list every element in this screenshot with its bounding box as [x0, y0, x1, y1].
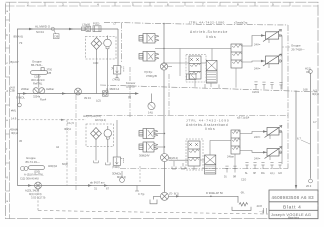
svg-text:H2.5: H2.5 — [305, 67, 311, 71]
svg-text:31: 31 — [94, 187, 97, 191]
enclosure A left dash-dot — [121, 23, 123, 62]
wire valves to trunk — [155, 49, 231, 64]
svg-text:x|9.71|«3|4: x|9.71|«3|4 — [237, 117, 250, 120]
svg-text:L(L): L(L) — [270, 172, 275, 175]
svg-text:9/0.5(2.2): 9/0.5(2.2) — [95, 118, 106, 122]
capsule accumulator bottom — [29, 166, 45, 170]
svg-text:73: 73 — [19, 41, 23, 45]
zone ticks left — [6, 20, 10, 191]
svg-text:links: links — [206, 35, 216, 39]
motor M1 — [263, 30, 282, 42]
arrow motor feed 4 — [263, 151, 267, 153]
svg-text:#M|.: #M|. — [11, 109, 16, 113]
svg-text:D|: D| — [224, 176, 227, 179]
wire spool to relief — [201, 49, 212, 64]
svg-text:S3 04: S3 04 — [36, 30, 44, 34]
small valve box on assembly bottom — [187, 74, 197, 80]
svg-text:3.1(-5: 3.1(-5 — [67, 121, 74, 125]
svg-text:Mannheim: Mannheim — [288, 216, 299, 219]
leader to Gruppe — [282, 46, 290, 48]
wire spool2 to relief2 — [200, 141, 231, 161]
partition dash-dot x130 — [129, 67, 131, 118]
svg-text:b: b — [6, 33, 8, 37]
dashed vline x140 — [139, 166, 141, 183]
port circle mid-bottom — [120, 171, 125, 182]
measuring stem below distribution — [18, 94, 22, 107]
wire dashed drop bottom-left — [37, 189, 39, 210]
svg-text:—(5: —(5 — [259, 210, 265, 214]
svg-text:JTRL 4A-7432-1080: JTRL 4A-7432-1080 — [189, 20, 225, 24]
motor shaft circles — [269, 34, 282, 68]
valve circle bottom-left — [35, 182, 42, 189]
dashed pilot hline left — [17, 119, 86, 121]
relief valve tall bottom — [231, 130, 240, 154]
prop valve dashed box bottom — [186, 139, 203, 170]
svg-text:L(2): L(2) — [96, 99, 101, 103]
solenoid valve V4 — [139, 142, 158, 152]
zone numbers top — [27, 2, 274, 6]
right vertical line 2 — [310, 73, 312, 178]
wires relief to motors — [242, 36, 266, 63]
svg-text:C.7(p: C.7(p — [138, 192, 145, 196]
svg-text:L3(p06: L3(p06 — [82, 23, 91, 27]
wire lower distribution line — [17, 93, 137, 95]
svg-text:67: 67 — [106, 187, 109, 191]
tank circle mid — [148, 94, 155, 110]
svg-text:C7: C7 — [113, 22, 117, 26]
arrow motor feed 2 — [261, 60, 265, 62]
small circle pair left of capsule — [21, 167, 29, 171]
svg-text:AL MWD O: AL MWD O — [35, 24, 51, 28]
coupling block on main line — [82, 26, 91, 31]
motor circle mid — [161, 154, 169, 162]
svg-text:RG: RG — [261, 172, 265, 175]
svg-text:B|4.KY: B|4.KY — [11, 60, 20, 64]
svg-text:30V-10-S/0: 30V-10-S/0 — [31, 78, 45, 82]
svg-text:M(26.2): M(26.2) — [169, 156, 178, 160]
svg-text:links: links — [205, 127, 215, 131]
svg-text:A(23L 34(33: A(23L 34(33 — [25, 189, 40, 193]
wire motor return vertical top — [279, 36, 282, 90]
title block outline — [269, 190, 318, 219]
junction dot return — [210, 196, 212, 198]
svg-text:3.02 C(17.9): 3.02 C(17.9) — [31, 196, 46, 200]
svg-text:-09,: -09, — [240, 191, 245, 195]
svg-text:A-(3)(V) RefTNL: A-(3)(V) RefTNL — [24, 173, 44, 177]
relief valve tall top — [231, 44, 242, 68]
svg-text:a: a — [6, 9, 8, 13]
leader 6.7 — [301, 140, 310, 144]
svg-text:x7|wada7zq: x7|wada7zq — [234, 22, 248, 25]
svg-text:Blatt 4: Blatt 4 — [283, 205, 302, 211]
valve with down arrow bottom — [113, 157, 123, 165]
arrow return line2 — [88, 184, 92, 186]
svg-text:60(4): 60(4) — [62, 162, 68, 166]
arrow distribution line 2 — [62, 92, 66, 94]
motor M4 — [265, 147, 283, 159]
suction wires below pump group — [97, 59, 108, 94]
spool block bottom — [205, 155, 216, 174]
svg-text:C/B: C/B — [47, 72, 52, 75]
svg-text:CZO1: CZO1 — [252, 90, 260, 94]
svg-text:45A(4): 45A(4) — [10, 128, 18, 132]
prop valve stack top — [189, 56, 201, 79]
svg-text:ab 9V07 am: ab 9V07 am — [90, 181, 105, 185]
tank glyph below prop valve bottom — [172, 161, 185, 169]
svg-text:C. 3609 14: C. 3609 14 — [106, 87, 120, 91]
arrow on main line — [29, 28, 34, 30]
svg-text:D 902E-4P 50: D 902E-4P 50 — [206, 191, 223, 195]
svg-text:RefTNL: RefTNL — [33, 82, 43, 86]
svg-text:C3B: C3B — [10, 89, 15, 93]
svg-text:P(32): P(32) — [93, 22, 99, 26]
arrow motor feed 3 — [263, 130, 267, 132]
ports row bottom — [225, 163, 281, 173]
motor shaft circles bottom — [270, 130, 282, 160]
svg-text:[4]: [4] — [128, 95, 131, 99]
wire valves to trunk bottom — [154, 134, 165, 148]
svg-text:(7400): (7400) — [112, 165, 120, 169]
valve with down arrow (7400) — [112, 66, 124, 78]
junction dots bottom trunk — [164, 133, 165, 134]
valve circle pair on distribution — [33, 88, 45, 94]
svg-text:Run4: Run4 — [40, 98, 47, 102]
dashed pump group box top — [86, 36, 117, 59]
svg-text:9R: 9R — [233, 176, 236, 179]
svg-text:GO: GO — [278, 172, 282, 175]
port circle OZ — [309, 70, 313, 74]
enclosure B right dash-dot — [287, 92, 289, 169]
zone letters left — [6, 9, 8, 203]
svg-text:c: c — [6, 61, 8, 65]
pump circle bottom left — [161, 192, 169, 200]
svg-text:7(0.5)x: 7(0.5)x — [144, 70, 153, 74]
svg-text:3a0bar: 3a0bar — [46, 87, 54, 91]
svg-text:39 04: 39 04 — [84, 96, 91, 100]
svg-text:C(2) 30A-KN4U: C(2) 30A-KN4U — [20, 177, 39, 181]
svg-text:86-7421-: 86-7421- — [31, 63, 43, 67]
arrow return line3 — [104, 184, 108, 186]
svg-text:24V=: 24V= — [254, 43, 261, 47]
suction wires bottom group — [96, 147, 108, 163]
enclosure A right dash-dot — [287, 25, 289, 92]
svg-text:I3(1)4: I3(1)4 — [11, 131, 19, 135]
svg-text:(7)- 6(1): (7)- 6(1) — [169, 192, 179, 196]
enclosure B bottom dash-dot — [120, 168, 288, 170]
capsule accumulator top — [31, 68, 48, 75]
svg-text:C180: C180 — [34, 75, 41, 79]
tank under suction 1 — [94, 161, 110, 165]
left trunk vertical lower — [16, 94, 18, 186]
solenoid valve V1 — [139, 34, 159, 44]
port circle right — [309, 179, 313, 183]
junction dots top trunk — [163, 48, 164, 49]
enclosure A top dash-dot — [104, 22, 288, 25]
pump circle P3 — [160, 63, 172, 70]
solenoid valve V3 — [139, 129, 158, 139]
svg-text:(100.5): (100.5) — [126, 84, 135, 88]
wire stub tank to return — [135, 186, 139, 192]
svg-text:C3D: C3D — [93, 61, 98, 65]
arrow distribution line — [135, 92, 139, 94]
pump circle bottom — [104, 126, 112, 147]
svg-text:C2O: C2O — [241, 179, 246, 182]
prop valve stack bottom — [188, 141, 200, 166]
svg-text:89(4.6): 89(4.6) — [14, 35, 24, 39]
prop valve dashed box top — [186, 55, 206, 83]
svg-text:24bar: 24bar — [227, 155, 234, 159]
svg-text:43.8: 43.8 — [257, 204, 263, 208]
svg-text:24V=: 24V= — [254, 135, 261, 139]
junction dot trunk top — [163, 23, 165, 25]
arrow pilot — [61, 119, 65, 121]
svg-text:3700(y/B: 3700(y/B — [146, 74, 157, 78]
svg-text:3P: 3P — [253, 172, 256, 175]
svg-text:14.9: 14.9 — [11, 117, 17, 121]
svg-text:6.7: 6.7 — [297, 137, 301, 141]
svg-text:g: g — [6, 175, 8, 179]
wire capsule drop — [38, 74, 40, 87]
motor M3 — [265, 126, 283, 138]
wire trunk vertical x164 top — [163, 24, 165, 63]
pump circle top — [104, 36, 112, 60]
svg-text:Jeb(4.6)+2(0.2): Jeb(4.6)+2(0.2) — [83, 114, 101, 118]
svg-text:I3(2)4: I3(2)4 — [64, 127, 71, 131]
svg-text:I3(1)4: I3(1)4 — [312, 92, 319, 96]
svg-text:44: 44 — [56, 145, 59, 149]
svg-text:168: 168 — [303, 88, 308, 92]
wire drop to shutoff valve — [117, 29, 119, 66]
arrow return right — [176, 195, 180, 197]
wire assembly drops top — [180, 48, 236, 87]
check valve on distribution line — [103, 91, 109, 96]
enclosure B top dash-dot — [86, 115, 288, 117]
enclosure A bottom dash-dot — [100, 85, 318, 92]
tank symbol bottom mid — [150, 196, 161, 204]
svg-text:JS-7418—: JS-7418— — [291, 47, 305, 51]
wire trunk below motor circle — [164, 162, 166, 193]
svg-text:Antrieb-Schnecke: Antrieb-Schnecke — [190, 30, 228, 34]
valve circle A on distribution — [75, 88, 82, 95]
svg-text:24V=: 24V= — [254, 157, 261, 161]
spool block top — [206, 60, 217, 83]
wire assembly drops bottom — [194, 154, 235, 170]
svg-text:4608983508 A6 83: 4608983508 A6 83 — [272, 195, 315, 200]
svg-text:(7400): (7400) — [113, 78, 121, 82]
filter diamond bottom — [91, 128, 102, 147]
arrow motor feed 1 — [261, 34, 265, 36]
arrow right line 1 — [295, 185, 297, 190]
dashed vline x67 — [66, 120, 68, 186]
arrow on main line 2 — [69, 28, 74, 30]
solenoid valve V2 — [139, 52, 159, 62]
svg-text:45: 45 — [19, 139, 22, 143]
svg-text:9(4) C(2.3): 9(4) C(2.3) — [29, 192, 42, 196]
right vertical line 1 — [295, 91, 297, 187]
svg-text:f: f — [6, 147, 7, 151]
wire main pressure line — [17, 29, 118, 94]
svg-text:e: e — [6, 118, 8, 122]
svg-text:14(): 14() — [148, 111, 153, 115]
svg-text:3DM(2y: 3DM(2y — [112, 172, 122, 176]
ports row top — [254, 82, 282, 90]
wires relief2 to motors — [240, 132, 267, 153]
svg-text:30M(24V: 30M(24V — [139, 154, 150, 158]
arrow return line — [28, 184, 32, 186]
partition dash-dot x169 — [168, 74, 170, 116]
svg-text:200bar: 200bar — [21, 87, 29, 91]
svg-text:JTRL 44-7432-1090: JTRL 44-7432-1090 — [186, 118, 230, 122]
wire drop to valve 7400 bottom — [116, 120, 118, 157]
svg-text:86-74.19—: 86-74.19— — [26, 160, 40, 164]
svg-text:d: d — [6, 89, 8, 93]
dashdot vline x76 — [75, 95, 77, 191]
wire dashed bottom run — [38, 211, 268, 215]
wire motor circle to prop valve 2 — [169, 159, 189, 161]
wire trunk vertical x164 below pump — [163, 70, 165, 154]
zone ticks top — [45, 2, 290, 6]
svg-text:24V=: 24V= — [254, 67, 261, 71]
port tick bottom right — [264, 208, 267, 214]
wire return right run — [169, 196, 239, 203]
wire bottom return line — [17, 185, 160, 187]
stub on dashdot 1 — [205, 84, 219, 89]
port circle on main line — [51, 27, 59, 39]
svg-text:4.7: 4.7 — [313, 120, 317, 124]
arrow distribution line left — [23, 92, 27, 94]
hose coil symbol — [232, 203, 251, 211]
coupling block 2 — [93, 26, 101, 32]
dashed pump group box bottom — [86, 124, 114, 147]
filter diamond top — [91, 38, 102, 60]
svg-text:400(3)4: 400(3)4 — [48, 164, 57, 168]
svg-text:6L: 6L — [245, 172, 248, 175]
svg-text:a: a — [6, 199, 8, 203]
svg-text:C/B: C/B — [54, 35, 59, 39]
svg-text:OZ: OZ — [306, 70, 310, 74]
motor M2 — [263, 54, 282, 66]
wire motor return vertical bottom — [279, 132, 282, 165]
svg-text:M(26.2): M(26.2) — [117, 175, 126, 179]
svg-text:26.3: 26.3 — [306, 184, 312, 188]
